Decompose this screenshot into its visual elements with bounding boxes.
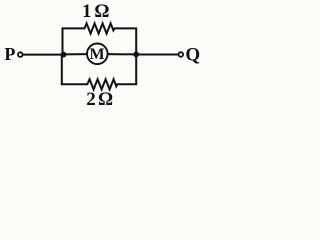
- junction right node: [133, 52, 139, 58]
- svg-text:Ω: Ω: [95, 1, 110, 22]
- label 1 ohm: [82, 1, 110, 22]
- motor M: [87, 44, 108, 65]
- svg-text:2: 2: [86, 89, 96, 110]
- svg-text:Q: Q: [185, 44, 200, 65]
- junction left node: [61, 52, 67, 58]
- wire left junction to motor: [64, 53, 88, 55]
- terminal P: [18, 52, 23, 57]
- resistor R1 1 ohm (top branch with leads): [63, 23, 137, 54]
- wire right junction to Q: [136, 54, 178, 56]
- resistor R2 2 ohm (bottom branch with leads): [62, 54, 136, 89]
- wire P to left junction: [23, 54, 63, 56]
- svg-text:Ω: Ω: [98, 89, 113, 110]
- label 2 ohm: [86, 89, 113, 110]
- terminal Q: [179, 52, 184, 57]
- svg-text:1: 1: [82, 1, 92, 22]
- svg-text:M: M: [89, 46, 104, 63]
- svg-text:P: P: [4, 44, 15, 64]
- wire motor to right junction: [107, 53, 136, 55]
